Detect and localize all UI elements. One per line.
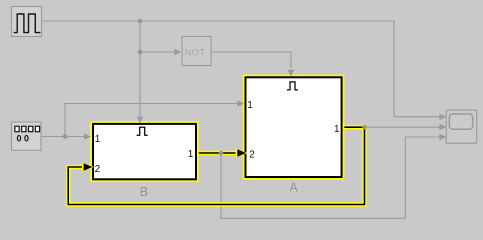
junction node at NOT branch [138,50,143,55]
subsystem B (triggered, highlighted) [91,122,198,181]
arrowhead: into scope input 1 [439,114,446,121]
arrowhead: highlighted into B input 2 [82,162,94,172]
svg-text:B: B [140,185,148,199]
arrowhead: down into trigger of B [137,117,144,124]
svg-text:2: 2 [249,149,255,160]
wire: pulse generator output to scope input 1 [42,21,441,117]
wire: branch up from constant wire to A input 1 [65,104,239,137]
arrowhead: highlighted into A input 2 [236,148,248,158]
port label A out 1 [334,124,340,135]
svg-text:NOT: NOT [185,47,206,57]
trigger port symbol of B [137,127,148,135]
trigger port symbol of A [287,82,298,90]
block name label B [140,185,148,199]
svg-text:1: 1 [95,134,101,145]
arrowhead: into scope input 3 [439,134,446,141]
block name label A [289,180,298,194]
wire: branch to NOT input [140,51,176,53]
wire: highlighted B output to A input 2 (yellow) [196,151,240,156]
port label B in 2 [95,164,101,175]
wire: branch down from pulse wire to trigger of B [139,21,141,117]
port label A in 2 [249,149,255,160]
svg-text:2: 2 [95,164,101,175]
wire: constant block output to B input 1 [42,136,86,138]
junction node on pulse wire [138,19,143,24]
arrowhead: into NOT input [174,49,181,56]
pulse generator block [12,7,42,37]
constant / counter block (0 0) [12,122,42,150]
wire: branch from A output to scope input 2 [365,126,441,128]
arrowhead: into scope input 2 [439,124,446,131]
svg-text:1: 1 [247,100,253,111]
svg-text:1: 1 [188,149,194,160]
NOT block (faded) [182,37,211,66]
junction node on B output wire [219,151,224,156]
wire: highlighted feedback A output around to B input 2 (yellow) [68,127,364,204]
junction node on constant wire [63,134,68,139]
arrowhead: into A input 1 [237,100,244,107]
subsystem A (triggered, highlighted) [244,76,344,179]
svg-text:0 0: 0 0 [17,133,30,143]
svg-text:A: A [289,180,298,194]
svg-text:1: 1 [334,124,340,135]
arrowhead: into B input 1 [84,133,91,140]
junction node on A output wire [362,125,367,130]
port label A in 1 [247,100,253,111]
wire: NOT output to trigger of A [211,52,291,68]
wire: branch from B output down around to scope input 3 [221,137,440,218]
arrowhead: down into trigger of A [288,70,295,77]
scope block [446,110,477,143]
port label B in 1 [95,134,101,145]
port label B out 1 [188,149,194,160]
